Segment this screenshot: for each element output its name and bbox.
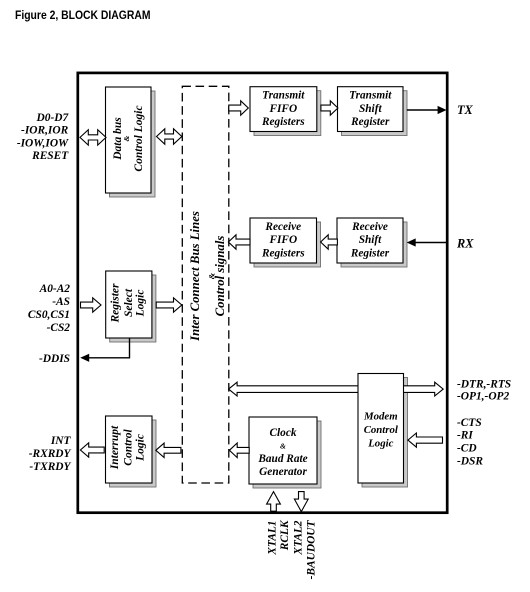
svg-text:TX: TX (457, 103, 474, 117)
wire: modem input pins -CTS/-RI/-CD/-DSR into Modem Control Logic (408, 433, 443, 447)
svg-text:Registers: Registers (261, 247, 305, 259)
svg-text:&: & (280, 441, 286, 450)
svg-text:Receive: Receive (351, 221, 388, 233)
svg-text:-DDIS: -DDIS (39, 353, 70, 365)
bus region label: Inter Connect Bus Lines & Control signals (188, 211, 227, 342)
svg-text:-RI: -RI (457, 430, 473, 442)
pin labels: INT / -RXRDY / -TXRDY (29, 435, 72, 473)
wire: interconnect bus to Interrupt Control Logic (156, 443, 181, 457)
block: Modem Control Logic (358, 374, 404, 484)
block: Data bus & Control Logic (106, 87, 156, 197)
block: Receive Shift Register (337, 218, 407, 267)
pin labels: XTAL1 / RCLK / XTAL2 / -BAUDOUT (rotated) (267, 519, 318, 579)
block: Register Select Logic (106, 271, 156, 342)
modem block shadow (362, 378, 408, 488)
svg-text:Registers: Registers (261, 116, 305, 128)
svg-text:Baud Rate: Baud Rate (257, 453, 307, 465)
wire: Receive FIFO Registers to interconnect bus (228, 235, 250, 249)
svg-text:-OP1,-OP2: -OP1,-OP2 (457, 391, 509, 403)
svg-text:Shift: Shift (359, 103, 382, 115)
svg-text:-TXRDY: -TXRDY (29, 461, 71, 473)
wire: Clock & Baud Rate Generator to interconnect bus (229, 443, 249, 458)
svg-text:-CS2: -CS2 (47, 322, 71, 334)
wire: -DDIS output from Register Select Logic (80, 339, 129, 362)
block: Clock & Baud Rate Generator (249, 417, 321, 488)
wire: Interrupt Control Logic to INT/-RXRDY/-TXRDY pins (80, 443, 104, 457)
svg-text:XTAL2: XTAL2 (292, 520, 304, 555)
pin labels: -DTR,-RTS / -OP1,-OP2 (457, 378, 511, 402)
pin arrow: XTAL1/RCLK input (up) (267, 492, 281, 512)
svg-text:CS0,CS1: CS0,CS1 (28, 309, 70, 321)
svg-text:FIFO: FIFO (268, 234, 297, 246)
pin labels: D0-D7 / -IOR,IOR / -IOW,IOW / RESET (17, 112, 70, 162)
svg-text:-IOR,IOR: -IOR,IOR (21, 125, 69, 137)
svg-text:Transmit: Transmit (262, 90, 305, 102)
svg-text:D0-D7: D0-D7 (36, 112, 70, 124)
svg-text:Register: Register (350, 247, 390, 259)
wire: A0-A2 address into Register Select Logic (81, 298, 102, 312)
svg-text:-BAUDOUT: -BAUDOUT (306, 519, 318, 579)
svg-text:RX: RX (456, 236, 474, 250)
inter-connect bus dashed region (182, 86, 229, 483)
svg-text:-CD: -CD (457, 443, 477, 455)
svg-text:Transmit: Transmit (349, 90, 392, 102)
svg-text:XTAL1: XTAL1 (267, 521, 279, 556)
block: Interrupt Control Logic (106, 416, 157, 487)
svg-text:RESET: RESET (31, 150, 69, 162)
svg-text:FIFO: FIFO (268, 103, 297, 115)
wire: data bus block to interconnect bus bidirectional arrow (157, 129, 182, 144)
chip outer boundary box (78, 73, 447, 513)
wire: Register Select Logic to interconnect bus (156, 298, 182, 312)
svg-text:A0-A2: A0-A2 (39, 283, 71, 295)
svg-text:-DTR,-RTS: -DTR,-RTS (457, 378, 511, 390)
svg-text:-RXRDY: -RXRDY (29, 448, 72, 460)
svg-text:Clock: Clock (270, 427, 297, 439)
svg-text:-IOW,IOW: -IOW,IOW (17, 137, 69, 149)
svg-text:Register: Register (350, 116, 390, 128)
wire: RX input to Receive Shift Register (407, 238, 446, 246)
svg-text:-CTS: -CTS (457, 417, 482, 429)
svg-text:RCLK: RCLK (279, 519, 291, 551)
wire: Transmit FIFO to Transmit Shift Register (321, 101, 338, 115)
pin labels: -CTS / -RI / -CD / -DSR (457, 417, 483, 468)
pin arrow: XTAL2/-BAUDOUT output (down) (294, 492, 308, 512)
svg-text:Control: Control (364, 424, 398, 436)
svg-text:Generator: Generator (259, 466, 307, 478)
block: Transmit Shift Register (338, 87, 408, 136)
bus wire: -DTR,-RTS / -OP1,-OP2 bidirectional arrow (229, 382, 444, 396)
svg-text:Logic: Logic (367, 437, 393, 449)
svg-text:INT: INT (50, 435, 72, 447)
svg-text:-DSR: -DSR (457, 456, 483, 468)
wire: D0-D7 data bus bidirectional arrow (left edge) (80, 130, 106, 145)
svg-text:Figure 2, BLOCK DIAGRAM: Figure 2, BLOCK DIAGRAM (15, 8, 151, 22)
svg-text:Modem: Modem (363, 411, 398, 423)
wire: TX output from Transmit Shift Register (407, 106, 447, 114)
svg-text:Shift: Shift (359, 234, 382, 246)
pin labels: A0-A2 / -AS / CS0,CS1 / -CS2 (28, 283, 70, 334)
wire: Receive Shift Register to Receive FIFO Registers (321, 235, 338, 249)
svg-text:Receive: Receive (264, 221, 301, 233)
svg-text:-AS: -AS (52, 296, 70, 308)
block: Receive FIFO Registers (250, 218, 321, 267)
wire: interconnect bus to Transmit FIFO Registers (229, 101, 249, 115)
block: Transmit FIFO Registers (250, 87, 321, 136)
